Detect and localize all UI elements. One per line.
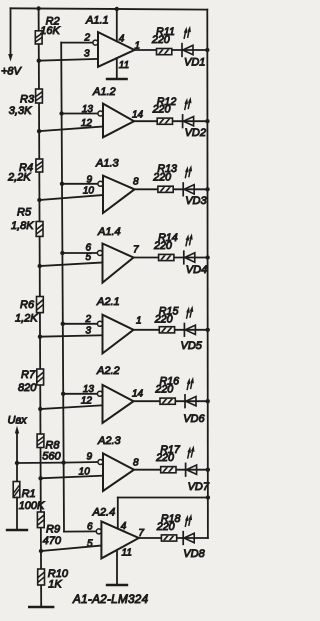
svg-text:220: 220 [153, 240, 172, 252]
svg-text:R3: R3 [20, 94, 35, 106]
svg-text:R9: R9 [46, 523, 60, 535]
svg-text:2: 2 [84, 314, 91, 325]
svg-text:560: 560 [42, 451, 61, 463]
svg-text:A2.1: A2.1 [96, 296, 120, 308]
svg-text:1,8K: 1,8K [11, 220, 34, 232]
svg-text:VD3: VD3 [185, 195, 207, 207]
svg-text:A1.2: A1.2 [92, 86, 116, 98]
svg-text:VD7: VD7 [188, 481, 210, 493]
svg-text:6: 6 [87, 522, 93, 533]
svg-text:3: 3 [85, 326, 91, 337]
svg-text:5: 5 [85, 252, 91, 263]
svg-text:820: 820 [18, 382, 37, 394]
svg-text:1,2K: 1,2K [15, 313, 38, 325]
svg-text:A2.3: A2.3 [97, 435, 122, 447]
svg-text:16K: 16K [40, 25, 60, 37]
svg-text:A1-A2-LM324: A1-A2-LM324 [72, 593, 149, 606]
svg-text:8: 8 [133, 177, 139, 188]
svg-text:VD5: VD5 [181, 340, 203, 352]
svg-text:1: 1 [136, 316, 142, 327]
svg-text:12: 12 [81, 118, 93, 129]
svg-text:VD6: VD6 [183, 413, 205, 425]
svg-text:13: 13 [82, 104, 94, 115]
svg-text:9: 9 [86, 452, 92, 463]
svg-text:220: 220 [154, 384, 173, 396]
svg-text:R8: R8 [45, 439, 60, 451]
svg-text:3,3K: 3,3K [9, 105, 32, 117]
svg-text:11: 11 [122, 548, 132, 559]
svg-text:220: 220 [154, 314, 173, 326]
svg-text:A1.1: A1.1 [85, 15, 109, 27]
svg-text:1: 1 [135, 41, 141, 52]
svg-text:1K: 1K [48, 578, 62, 590]
svg-text:A2.2: A2.2 [96, 365, 120, 377]
svg-text:VD8: VD8 [183, 548, 205, 560]
svg-text:2,2K: 2,2K [7, 172, 31, 184]
svg-text:220: 220 [156, 521, 175, 533]
svg-text:R1: R1 [22, 488, 36, 500]
svg-text:470: 470 [43, 535, 62, 547]
svg-text:8: 8 [133, 458, 139, 469]
svg-text:4: 4 [119, 34, 125, 45]
svg-text:14: 14 [132, 110, 144, 121]
svg-text:3: 3 [84, 49, 90, 60]
svg-text:9: 9 [86, 175, 92, 186]
svg-text:VD4: VD4 [186, 264, 207, 276]
svg-text:220: 220 [155, 452, 174, 464]
svg-text:VD1: VD1 [184, 56, 205, 68]
svg-text:A1.4: A1.4 [97, 226, 121, 238]
svg-text:Uвх: Uвх [8, 414, 28, 426]
svg-text:R7: R7 [21, 369, 36, 381]
svg-text:2: 2 [83, 33, 90, 44]
svg-text:100K: 100K [19, 500, 45, 512]
svg-text:10: 10 [83, 186, 95, 197]
svg-text:4: 4 [121, 521, 127, 532]
svg-text:220: 220 [151, 34, 170, 46]
svg-text:220: 220 [152, 171, 171, 183]
svg-text:12: 12 [81, 396, 93, 407]
svg-text:7: 7 [138, 528, 144, 539]
svg-text:220: 220 [152, 104, 171, 116]
svg-text:R6: R6 [20, 299, 35, 311]
svg-text:10: 10 [79, 467, 91, 478]
svg-text:R5: R5 [17, 206, 32, 218]
svg-text:13: 13 [83, 384, 95, 395]
svg-text:14: 14 [132, 389, 144, 400]
svg-text:A1.3: A1.3 [95, 158, 120, 170]
svg-text:+8V: +8V [1, 65, 23, 77]
svg-text:A2.4: A2.4 [92, 507, 116, 519]
svg-text:11: 11 [119, 60, 129, 71]
svg-text:7: 7 [133, 245, 139, 256]
svg-text:VD2: VD2 [185, 127, 206, 139]
svg-text:5: 5 [87, 539, 93, 550]
